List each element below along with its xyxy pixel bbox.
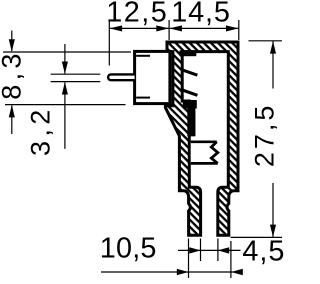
dimension 4,5 — [178, 239, 241, 262]
contact spring finger upper — [182, 70, 197, 75]
svg-text:8,3: 8,3 — [0, 49, 26, 100]
svg-text:4,5: 4,5 — [242, 236, 285, 268]
dimension 12,5 — [109, 20, 169, 66]
svg-text:10,5: 10,5 — [100, 233, 157, 265]
dimension 3,2 — [51, 44, 101, 149]
plug body (white box) — [135, 51, 170, 103]
svg-text:12,5: 12,5 — [106, 0, 168, 28]
dimension 27,5 — [231, 41, 282, 238]
dimension 8,3 — [3, 31, 131, 135]
clamp tab with break (zigzag) — [191, 142, 218, 164]
dimension 14,5 — [169, 20, 239, 40]
contact lower body (black band) — [183, 100, 197, 136]
housing cross-section (hatched body) — [165, 42, 238, 235]
svg-text:27,5: 27,5 — [250, 103, 280, 168]
dimension 10,5 — [101, 239, 243, 279]
svg-text:14,5: 14,5 — [171, 0, 231, 28]
contact top strip (black) — [180, 50, 197, 56]
plug inner line top — [136, 55, 150, 57]
solder pin — [108, 74, 134, 80]
svg-text:3,2: 3,2 — [26, 105, 56, 156]
plug inner line bottom — [136, 97, 150, 99]
contact spring finger lower — [182, 90, 197, 95]
